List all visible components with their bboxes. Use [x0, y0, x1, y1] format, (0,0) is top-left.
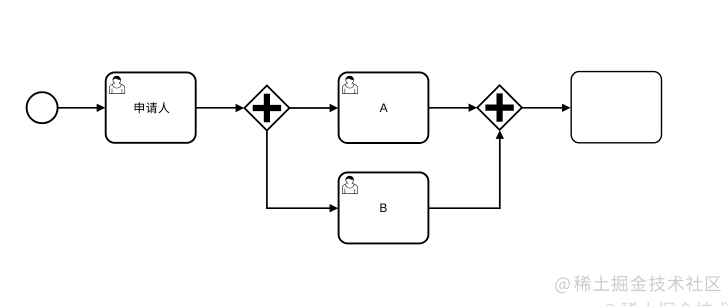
user task A (rounded rect) — [339, 72, 429, 143]
wire G1→B (down then right) — [267, 131, 338, 213]
wire G2→end task — [522, 104, 571, 112]
svg-text:B: B — [379, 201, 387, 215]
watermark row 2 (partial): @稀土掘金技术社区 — [602, 302, 728, 306]
wire G1→A — [289, 104, 338, 112]
start event (circle) — [27, 92, 58, 123]
watermark row 1: @稀土掘金技术社区 — [555, 275, 721, 293]
plus marker G1 — [253, 94, 280, 121]
user task 申请人 (rounded rect) — [106, 72, 196, 142]
wire B→G2 (right then up) — [428, 130, 504, 208]
wire start→申请人 — [58, 104, 105, 112]
parallel gateway G2 (diamond) — [477, 85, 522, 130]
user icon (B) — [342, 176, 357, 194]
user icon (申请人) — [109, 76, 124, 94]
user icon (A) — [342, 76, 357, 94]
wire 申请人→gateway G1 — [196, 104, 245, 112]
task end (unlabeled rounded rect) — [571, 72, 661, 143]
parallel gateway G1 (diamond) — [244, 86, 289, 131]
plus marker G2 — [486, 94, 513, 121]
svg-text:A: A — [380, 101, 388, 115]
user task B (rounded rect) — [339, 172, 429, 243]
label 申请人 — [135, 102, 170, 113]
wire A→gateway G2 — [428, 104, 477, 112]
